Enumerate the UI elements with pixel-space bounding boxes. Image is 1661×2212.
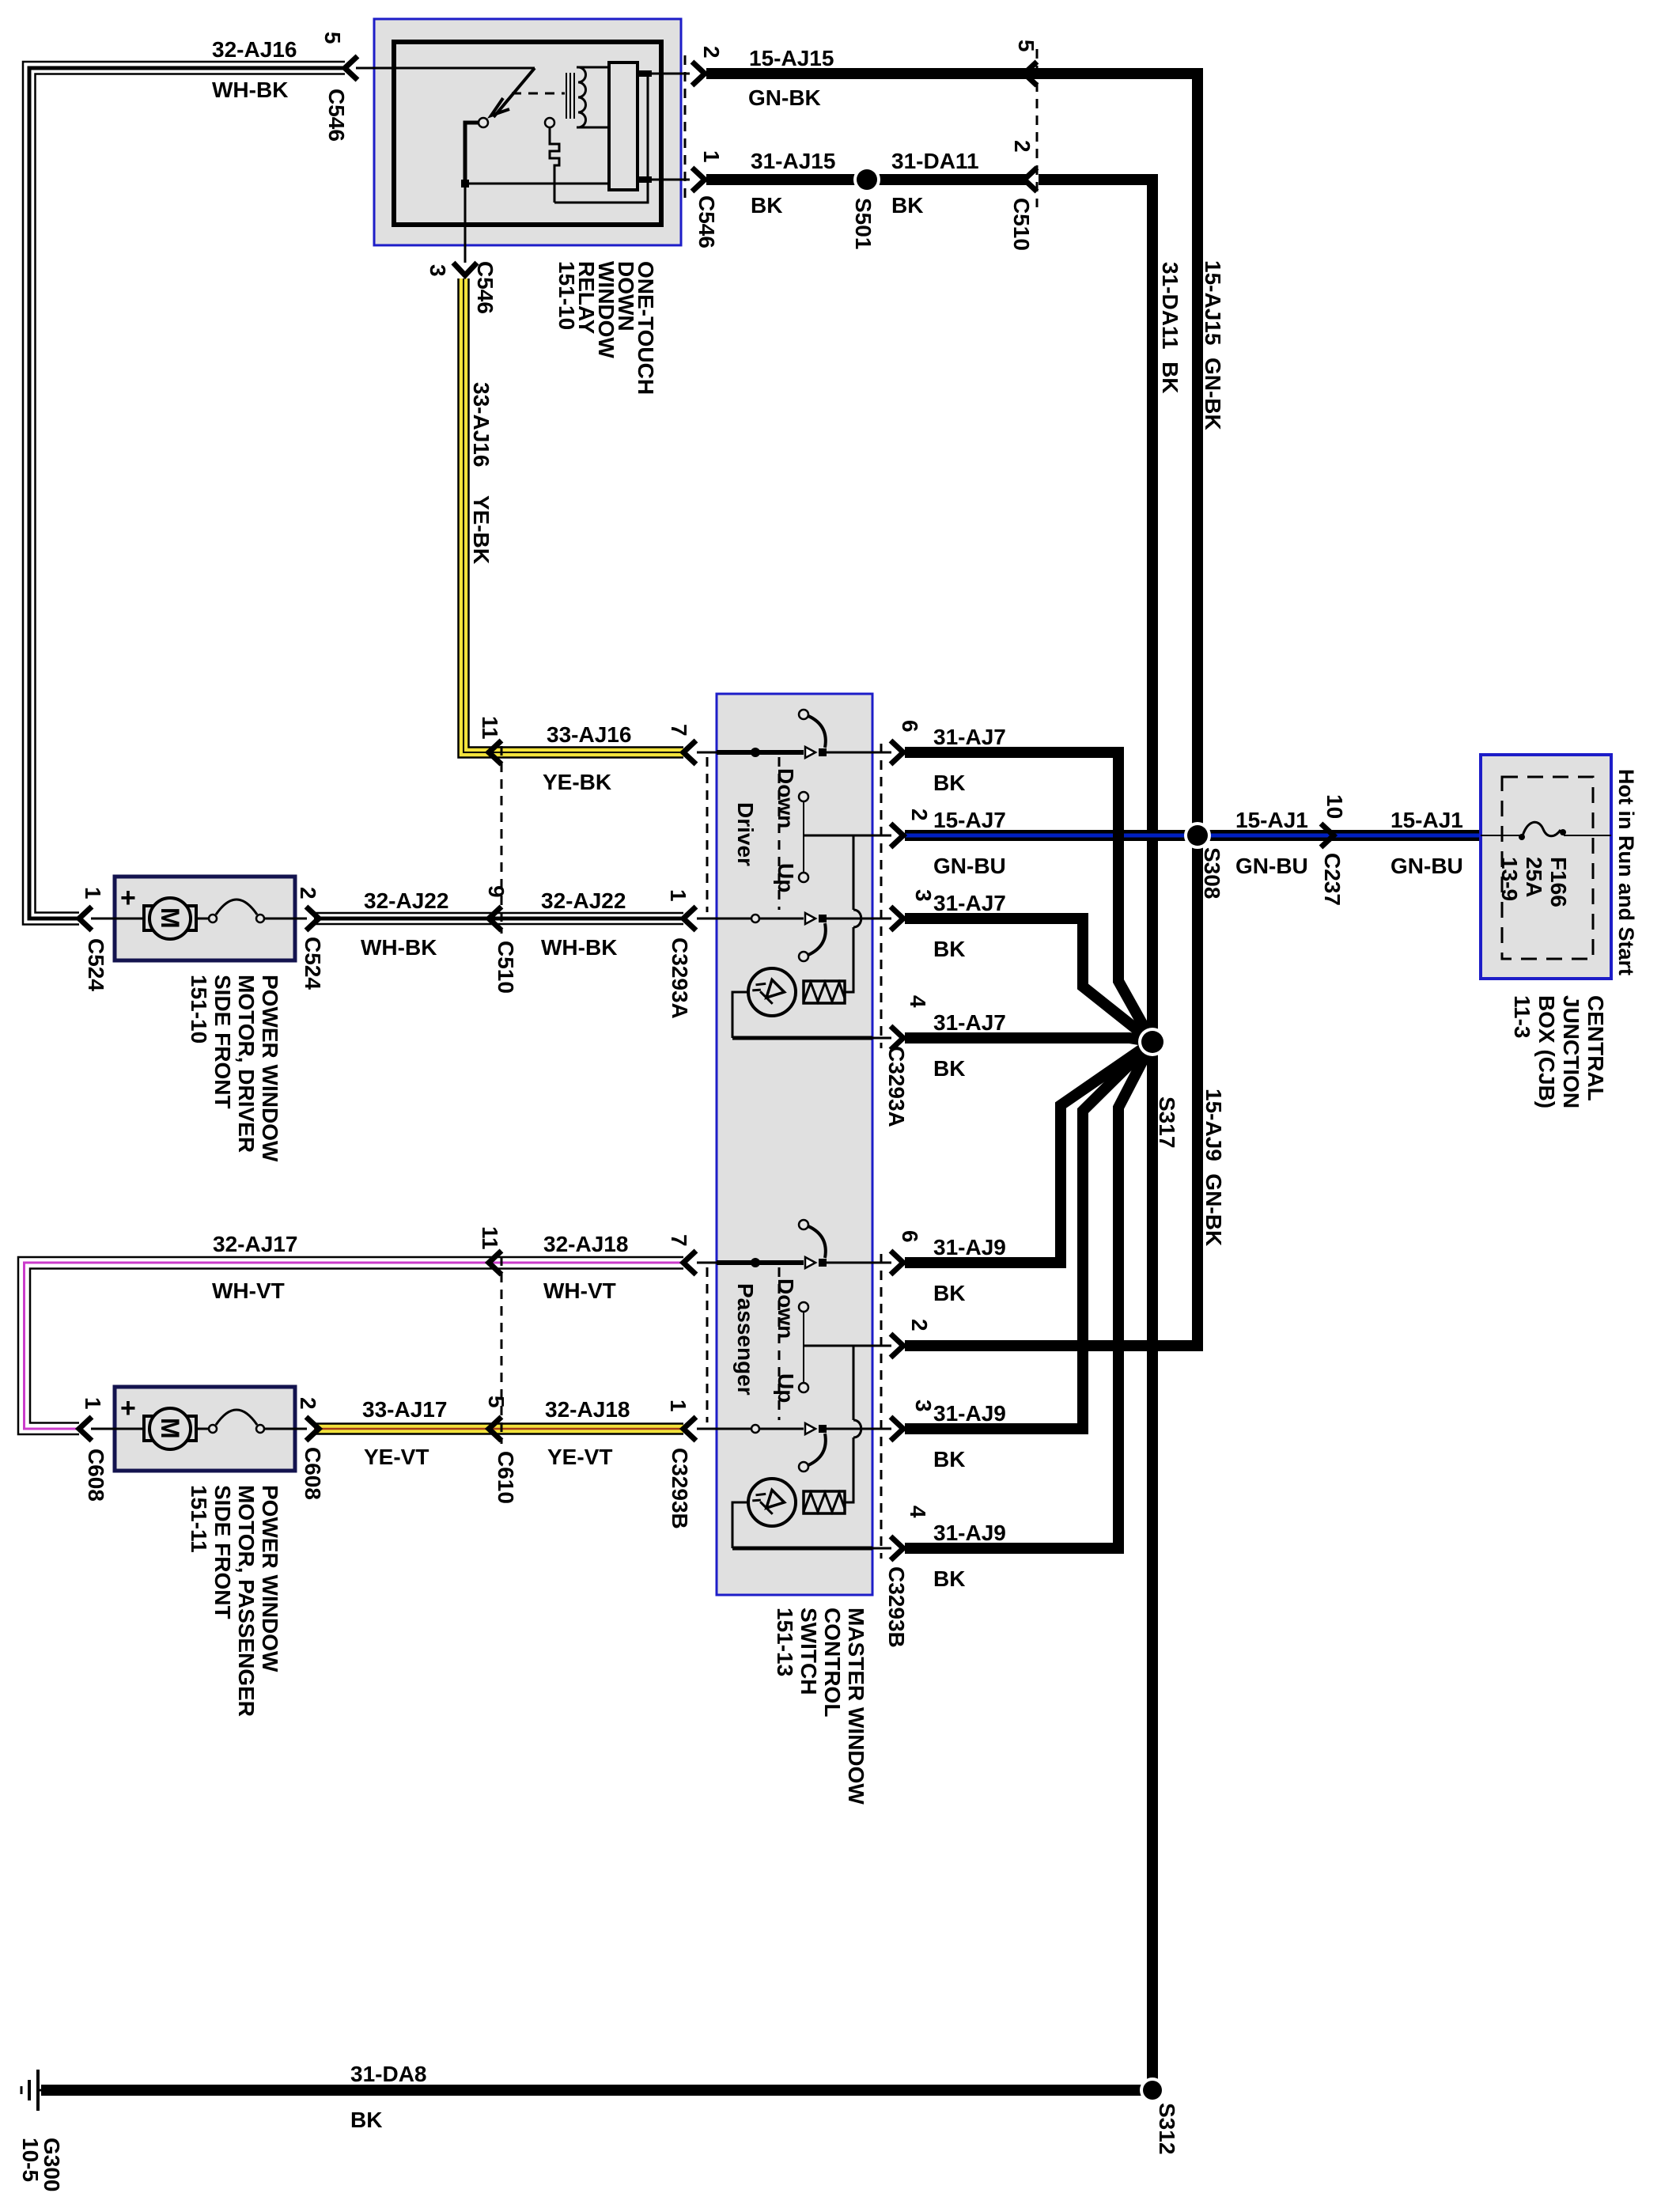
svg-text:C3293A: C3293A — [884, 1046, 909, 1127]
svg-text:3: 3 — [911, 1400, 936, 1412]
wire 15-AJ7 / 15-AJ1 GN-BU blue wire — [905, 830, 1481, 841]
svg-text:C510: C510 — [1009, 198, 1034, 251]
svg-text:YE-BK: YE-BK — [469, 495, 494, 564]
svg-text:11: 11 — [478, 716, 502, 740]
svg-text:C546: C546 — [324, 89, 349, 142]
brush rect — [144, 906, 196, 930]
svg-text:Up: Up — [774, 1373, 798, 1403]
svg-text:4: 4 — [906, 1506, 930, 1518]
svg-text:BK: BK — [933, 1447, 965, 1472]
chevron C510 pin9 — [489, 907, 501, 930]
svg-text:15-AJ1: 15-AJ1 — [1235, 808, 1308, 832]
internal wire stubs to connector — [697, 752, 717, 754]
junction S312 — [1140, 2078, 1165, 2103]
svg-text:15-AJ15 GN-BK: 15-AJ15 GN-BK — [1201, 260, 1225, 430]
svg-text:C608: C608 — [301, 1447, 325, 1500]
svg-text:BK: BK — [933, 1566, 965, 1591]
blade end circle top — [799, 710, 808, 719]
switch row3 wire pin1-pin3 — [717, 918, 804, 920]
svg-text:C524: C524 — [301, 937, 325, 990]
svg-text:11-3: 11-3 — [1510, 995, 1534, 1039]
svg-text:C524: C524 — [84, 938, 108, 991]
svg-text:32-AJ18: 32-AJ18 — [543, 1232, 628, 1256]
relay second contact circle — [545, 118, 554, 127]
svg-text:32-AJ18: 32-AJ18 — [545, 1397, 630, 1422]
svg-text:31-AJ9: 31-AJ9 — [933, 1235, 1006, 1259]
wire 31-AJ15 BK relay pin1 to S501 — [706, 174, 1028, 185]
svg-text:WH-VT: WH-VT — [543, 1278, 616, 1303]
svg-text:5: 5 — [320, 32, 345, 44]
relay internal module rect — [609, 62, 638, 190]
svg-text:BK: BK — [891, 193, 923, 218]
svg-text:31-AJ7: 31-AJ7 — [933, 1010, 1006, 1035]
svg-text:WH-BK: WH-BK — [212, 78, 288, 102]
svg-text:31-AJ7: 31-AJ7 — [933, 725, 1006, 749]
chevron C610 pin5 yellow — [489, 1417, 501, 1441]
svg-text:JUNCTION: JUNCTION — [1559, 995, 1583, 1108]
connector C3293 dashed line left — [706, 757, 709, 912]
svg-text:6: 6 — [898, 1230, 922, 1243]
fuse F166 dashed box — [1502, 777, 1593, 959]
svg-text:YE-VT: YE-VT — [364, 1445, 429, 1469]
svg-text:1: 1 — [666, 889, 691, 902]
wire 31-AJ9 pin4 to S317 — [905, 1042, 1152, 1548]
chevron relay pin5 — [345, 56, 358, 80]
svg-text:C510: C510 — [494, 941, 518, 994]
svg-text:MASTER WINDOW: MASTER WINDOW — [844, 1608, 868, 1805]
svg-text:15-AJ15: 15-AJ15 — [749, 46, 834, 70]
motor box — [115, 877, 295, 960]
wire 32-AJ16 WH-BK triple line relay pin5 to driver motor pin1 — [23, 62, 345, 925]
svg-text:WH-BK: WH-BK — [541, 935, 617, 960]
svg-text:BK: BK — [933, 771, 965, 795]
LED indicator — [748, 968, 796, 1016]
chevron motor pin2 — [306, 907, 319, 930]
fixed contact triangle top — [805, 747, 815, 758]
svg-text:10-5: 10-5 — [18, 2138, 43, 2182]
relay coil core — [566, 73, 567, 119]
blade end circle bottom — [799, 952, 808, 961]
wire 31-AJ7 pin4 to S317 — [905, 1038, 1152, 1042]
svg-text:31-AJ15: 31-AJ15 — [751, 149, 835, 173]
svg-text:GN-BU: GN-BU — [1390, 854, 1463, 878]
svg-text:2: 2 — [296, 1397, 320, 1410]
relay internal resistor zigzag — [550, 127, 559, 203]
svg-text:POWER WINDOW: POWER WINDOW — [258, 975, 282, 1162]
svg-text:M: M — [156, 907, 184, 929]
svg-text:2: 2 — [907, 809, 932, 821]
wire 31-DA11 BK vertical run to S312 — [1039, 180, 1152, 2090]
svg-text:F166: F166 — [1546, 857, 1571, 907]
chevron pin4 — [891, 1026, 903, 1050]
relay contact to pin3 wire — [465, 123, 479, 184]
relay switch blade — [494, 68, 535, 117]
branch to resistor with hop — [853, 835, 855, 910]
svg-text:32-AJ22: 32-AJ22 — [364, 888, 448, 913]
chevron C510 pin5 — [1024, 62, 1037, 85]
relay coil — [578, 67, 586, 127]
master window control switch box — [717, 694, 872, 1595]
svg-text:S312: S312 — [1155, 2103, 1179, 2154]
relay box ONE-TOUCH DOWN WINDOW RELAY — [374, 19, 681, 245]
svg-text:WH-BK: WH-BK — [361, 935, 437, 960]
relay blade contact circle — [479, 118, 488, 127]
svg-text:Down: Down — [774, 768, 798, 828]
relay pin1 stub — [638, 176, 652, 183]
svg-text:1: 1 — [699, 150, 724, 163]
wire 33-AJ17 / 32-AJ18 YE-VT yellow wire passenger motor pin2 to switch pin1 — [314, 1424, 683, 1434]
svg-text:BK: BK — [933, 1281, 965, 1305]
chevron relay pin2 — [692, 62, 705, 85]
svg-text:WH-VT: WH-VT — [212, 1278, 285, 1303]
svg-text:2: 2 — [907, 1319, 932, 1331]
motor circle — [149, 898, 191, 939]
chevron pin3 — [891, 907, 903, 930]
wire 31-AJ7 pin6 to S317 — [905, 752, 1152, 1042]
component name labels rotated — [187, 261, 1638, 1805]
svg-text:C3293B: C3293B — [668, 1448, 692, 1529]
svg-text:151-10: 151-10 — [187, 975, 211, 1044]
chevron pin1 — [683, 907, 696, 930]
svg-text:31-AJ9: 31-AJ9 — [933, 1521, 1006, 1545]
svg-text:32-AJ16: 32-AJ16 — [212, 37, 297, 62]
svg-text:Up: Up — [774, 863, 798, 892]
connector C510 dashed line middle — [501, 746, 503, 934]
ground G300 symbol — [21, 2070, 44, 2111]
svg-text:C608: C608 — [84, 1449, 108, 1502]
svg-text:31-DA11: 31-DA11 — [891, 149, 979, 173]
chevron pin6 — [891, 740, 903, 764]
svg-text:GN-BU: GN-BU — [933, 854, 1006, 878]
fuse wire — [1481, 835, 1522, 836]
fixed contact triangle bottom — [805, 913, 815, 924]
svg-text:CONTROL: CONTROL — [820, 1608, 845, 1717]
svg-text:S308: S308 — [1200, 847, 1224, 899]
wire name labels horizontal — [212, 37, 1463, 2132]
row3 terminal circle — [751, 915, 759, 922]
svg-text:33-AJ16: 33-AJ16 — [547, 722, 631, 747]
link bar circles — [799, 792, 808, 801]
svg-text:Down: Down — [774, 1278, 798, 1339]
svg-text:31-DA8: 31-DA8 — [350, 2062, 426, 2086]
svg-text:5: 5 — [1014, 40, 1039, 52]
svg-text:1: 1 — [81, 887, 105, 900]
wire 31-DA8 BK ground wire — [41, 2085, 1152, 2096]
mech dashed link — [778, 757, 781, 910]
svg-text:13-9: 13-9 — [1497, 857, 1522, 901]
svg-text:32-AJ17: 32-AJ17 — [213, 1232, 297, 1256]
svg-text:SIDE FRONT: SIDE FRONT — [210, 1485, 235, 1619]
chevron motor pin1 — [79, 907, 92, 930]
wire 31-AJ9 pin3 to S317 — [905, 1042, 1152, 1429]
svg-text:Driver: Driver — [733, 802, 758, 866]
fuse element — [1522, 822, 1561, 839]
circuit breaker — [196, 918, 209, 920]
svg-text:151-10: 151-10 — [554, 261, 579, 330]
junction S501 — [853, 166, 880, 193]
svg-text:32-AJ22: 32-AJ22 — [541, 888, 626, 913]
svg-text:S317: S317 — [1155, 1097, 1179, 1148]
blade pivot bottom — [819, 915, 827, 922]
relay mechanical dashed link — [512, 93, 565, 95]
chevron pin7 — [683, 740, 696, 764]
svg-text:11: 11 — [478, 1226, 502, 1250]
chevron C237 pin10 — [1321, 824, 1334, 847]
chevron C610 pin11 — [489, 1251, 501, 1275]
svg-text:C546: C546 — [694, 195, 719, 248]
svg-text:33-AJ16: 33-AJ16 — [469, 382, 494, 467]
wire 15-AJ15 GN-BK vertical run relay pin2 to passenger pin2 — [706, 74, 1198, 1346]
wire 32-AJ17 WH-VT triple line passenger switch pin7 to passenger motor pin1 — [18, 1257, 683, 1434]
power window motor driver — [79, 877, 319, 960]
svg-text:SWITCH: SWITCH — [796, 1608, 821, 1695]
junction S308 — [1184, 822, 1211, 849]
relay pin5 internal wire — [356, 67, 535, 70]
central junction box — [1481, 755, 1611, 979]
switch top row wire pin7-pin6 — [717, 750, 804, 755]
svg-text:31-AJ9: 31-AJ9 — [933, 1401, 1006, 1426]
relay inner case rect — [394, 42, 661, 225]
connector C546 dashed line right — [684, 55, 687, 198]
wire 31-AJ9 pin6 to S317 — [905, 1042, 1152, 1263]
svg-text:BOX (CJB): BOX (CJB) — [1534, 995, 1559, 1108]
pin2 internal wire — [804, 835, 872, 837]
junction S317 — [1138, 1028, 1167, 1056]
svg-text:15-AJ7: 15-AJ7 — [933, 808, 1006, 832]
svg-text:15-AJ9 GN-BK: 15-AJ9 GN-BK — [1201, 1089, 1226, 1246]
svg-text:GN-BK: GN-BK — [748, 85, 821, 110]
chevron C510 pin11 yellow — [489, 740, 501, 764]
connector C610 dashed line — [501, 1256, 503, 1444]
svg-text:+: + — [120, 883, 136, 913]
svg-text:3: 3 — [426, 264, 450, 277]
chevron C510 pin2 — [1024, 168, 1037, 191]
svg-text:C3293A: C3293A — [668, 937, 692, 1019]
relay pin2 stub — [638, 70, 652, 77]
svg-text:6: 6 — [898, 720, 922, 733]
resistor — [804, 981, 845, 1003]
connector C3293 dashed line right — [880, 744, 883, 1048]
svg-text:C610: C610 — [494, 1451, 518, 1504]
blade arc bottom — [808, 923, 826, 955]
power window motor passenger — [79, 1387, 319, 1471]
svg-text:S501: S501 — [851, 198, 876, 249]
svg-text:MOTOR, DRIVER: MOTOR, DRIVER — [234, 975, 259, 1153]
chevron relay pin3 — [453, 263, 477, 275]
junction dot on top row — [751, 748, 760, 757]
svg-text:33-AJ17: 33-AJ17 — [362, 1397, 447, 1422]
svg-text:YE-VT: YE-VT — [547, 1445, 612, 1469]
wire 32-AJ22 WH-BK driver motor pin2 to switch pin1 — [314, 913, 683, 924]
svg-text:2: 2 — [1010, 140, 1035, 153]
driver switch section — [683, 710, 903, 1050]
svg-text:Passenger: Passenger — [733, 1283, 758, 1396]
wire 31-AJ7 pin3 to S317 — [905, 919, 1152, 1042]
relay resistor to pin2 wire — [554, 74, 648, 203]
svg-text:7: 7 — [667, 1234, 691, 1247]
chevron pin2 — [891, 824, 903, 847]
svg-text:CENTRAL: CENTRAL — [1583, 995, 1608, 1101]
svg-text:GN-BU: GN-BU — [1235, 854, 1308, 878]
switch section labels — [733, 768, 798, 1403]
svg-text:31-AJ7: 31-AJ7 — [933, 891, 1006, 915]
svg-text:5: 5 — [484, 1396, 509, 1408]
wire 33-AJ16 YE-BK yellow wire relay pin3 to driver switch pin7 — [459, 278, 684, 758]
svg-text:BK: BK — [751, 193, 782, 218]
svg-text:2: 2 — [296, 887, 320, 900]
svg-text:151-13: 151-13 — [773, 1608, 797, 1676]
svg-text:C546: C546 — [473, 261, 498, 314]
svg-text:9: 9 — [484, 885, 509, 898]
svg-text:15-AJ1: 15-AJ1 — [1390, 808, 1463, 832]
svg-text:3: 3 — [911, 889, 936, 902]
svg-text:POWER WINDOW: POWER WINDOW — [258, 1485, 282, 1672]
LED to pin4 wire — [732, 992, 748, 1038]
svg-text:BK: BK — [933, 1056, 965, 1081]
passenger switch section — [683, 1220, 903, 1560]
svg-text:4: 4 — [906, 995, 930, 1008]
blade arc top — [808, 716, 826, 748]
svg-text:C237: C237 — [1320, 853, 1345, 906]
svg-text:MOTOR, PASSENGER: MOTOR, PASSENGER — [234, 1485, 259, 1717]
svg-text:1: 1 — [666, 1400, 691, 1412]
chevron relay pin1 — [692, 168, 705, 191]
svg-text:SIDE FRONT: SIDE FRONT — [210, 975, 235, 1109]
svg-text:BK: BK — [350, 2108, 382, 2132]
svg-text:7: 7 — [667, 724, 691, 737]
blade pivot top — [819, 748, 827, 756]
svg-text:C3293B: C3293B — [884, 1566, 909, 1648]
svg-text:BK: BK — [933, 937, 965, 961]
svg-text:YE-BK: YE-BK — [543, 770, 611, 794]
svg-text:31-DA11 BK: 31-DA11 BK — [1158, 262, 1182, 394]
connector C510 dashed line top — [1036, 49, 1039, 207]
svg-text:1: 1 — [81, 1397, 105, 1410]
svg-text:25A: 25A — [1522, 857, 1546, 897]
svg-text:Hot in Run and Start: Hot in Run and Start — [1614, 769, 1638, 975]
svg-text:151-11: 151-11 — [187, 1485, 211, 1553]
svg-text:2: 2 — [699, 46, 724, 59]
svg-text:10: 10 — [1322, 794, 1347, 819]
